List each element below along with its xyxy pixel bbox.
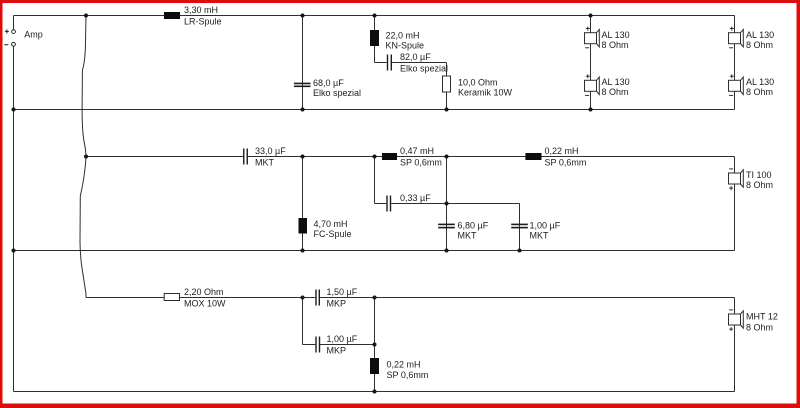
svg-text:22,0 mH: 22,0 mH: [386, 31, 420, 41]
wire 6,8uF column: [446, 157, 448, 251]
terminal - circle: [4, 42, 15, 46]
wire 0,33uF branch: [375, 157, 447, 204]
svg-text:MHT 12: MHT 12: [746, 312, 778, 322]
capacitor C3 33,0 uF MKT: [243, 146, 286, 168]
svg-text:8 Ohm: 8 Ohm: [602, 40, 629, 50]
svg-text:3,30 mH: 3,30 mH: [184, 5, 218, 15]
svg-text:0,47 mH: 0,47 mH: [400, 146, 434, 156]
wire R1 to return: [446, 92, 448, 110]
svg-text:33,0 µF: 33,0 µF: [255, 146, 286, 156]
svg-text:Elko spezial: Elko spezial: [400, 64, 448, 74]
node mid return left: [12, 249, 16, 253]
node mid feed FC: [301, 155, 305, 159]
label Amp: [24, 29, 43, 39]
svg-text:8 Ohm: 8 Ohm: [746, 322, 773, 332]
wire left ground rail: [13, 46, 15, 391]
speaker LS5 TI 100 8 Ohm: [729, 169, 774, 190]
node mid feed amp: [84, 155, 88, 159]
svg-text:MKT: MKT: [255, 158, 275, 168]
node mid return 68: [445, 249, 449, 253]
svg-text:1,00 µF: 1,00 µF: [327, 334, 358, 344]
svg-text:6,80 µF: 6,80 µF: [458, 220, 489, 230]
svg-text:SP 0,6mm: SP 0,6mm: [400, 158, 442, 168]
svg-text:MKP: MKP: [327, 346, 347, 356]
svg-text:10,0 Ohm: 10,0 Ohm: [458, 77, 498, 87]
svg-text:4,70 mH: 4,70 mH: [314, 219, 348, 229]
node woofer return left: [12, 108, 16, 112]
speaker LS1 AL 130 8 Ohm: [585, 27, 630, 51]
svg-text:MKT: MKT: [530, 230, 550, 240]
svg-text:8 Ohm: 8 Ohm: [746, 180, 773, 190]
wire TI column: [734, 157, 736, 251]
svg-text:AL 130: AL 130: [746, 30, 774, 40]
resistor R1 10,0 Ohm Keramik 10W: [443, 76, 513, 97]
capacitor C5 6,80 uF MKT: [438, 220, 489, 240]
speaker LS4 AL 130 8 Ohm: [729, 74, 775, 97]
capacitor C4 0,33 uF: [386, 193, 431, 212]
node woofer return R1: [445, 108, 449, 112]
resistor R2 2,20 Ohm MOX 10W: [164, 287, 226, 309]
speaker LS6 MHT 12 8 Ohm: [729, 310, 778, 333]
inductor L5 0,22 mH SP 0,6mm: [525, 146, 586, 168]
wire amp curve upper: [82, 16, 86, 157]
svg-text:0,22 mH: 0,22 mH: [545, 146, 579, 156]
wire mid feed rail: [86, 156, 735, 158]
node top at KN branch: [373, 14, 377, 18]
wire KN to C2: [375, 62, 447, 64]
wire MHT column: [734, 298, 736, 392]
inductor L2 22,0 mH KN-Spule: [370, 30, 424, 51]
svg-text:82,0 µF: 82,0 µF: [400, 52, 431, 62]
wire 1,00uF MKP branch: [303, 298, 375, 345]
node top at 68uF: [301, 14, 305, 18]
inductor L3 4,70 mH FC-Spule: [299, 218, 352, 239]
svg-text:AL 130: AL 130: [602, 30, 630, 40]
wire mid return rail: [14, 250, 735, 252]
capacitor C6 1,00 uF MKT: [511, 220, 561, 240]
svg-text:MKT: MKT: [458, 230, 478, 240]
svg-text:AL 130: AL 130: [602, 77, 630, 87]
node top at left speakers: [589, 14, 593, 18]
wire bottom rail: [14, 391, 735, 393]
node 033 branch: [445, 202, 449, 206]
node tweeter feed left: [301, 296, 305, 300]
wire woofer return rail: [14, 109, 735, 111]
inductor L6 0,22 mH SP 0,6mm: [370, 358, 428, 380]
wire top rail (+): [14, 15, 735, 17]
wire 0,22mH column: [374, 298, 376, 392]
inductor L1 3,30 mH LR-Spule: [164, 5, 222, 27]
node woofer return speakers: [589, 108, 593, 112]
wire amp curve lower: [80, 157, 86, 298]
wire left speaker column: [590, 16, 592, 110]
node woofer return 68uF: [301, 108, 305, 112]
svg-text:KN-Spule: KN-Spule: [386, 41, 425, 51]
node bottom rail: [373, 390, 377, 394]
wire tweeter feed rail: [86, 297, 735, 299]
svg-text:Elko spezial: Elko spezial: [313, 88, 361, 98]
terminal + circle: [5, 29, 16, 33]
wire C2 to R1: [446, 63, 448, 77]
wire 68uF stem: [302, 16, 304, 110]
svg-text:1,50 µF: 1,50 µF: [327, 287, 358, 297]
svg-text:8 Ohm: 8 Ohm: [746, 40, 773, 50]
capacitor C2 82,0 uF Elko spezial: [387, 52, 448, 74]
node mid return 100: [518, 249, 522, 253]
svg-text:Keramik 10W: Keramik 10W: [458, 87, 513, 97]
capacitor C8 1,00 uF MKP: [315, 334, 357, 356]
node mid feed 033: [373, 155, 377, 159]
svg-text:8 Ohm: 8 Ohm: [746, 87, 773, 97]
wire KN branch vertical: [374, 16, 376, 63]
node tweeter feed right: [373, 296, 377, 300]
speaker LS3 AL 130 8 Ohm: [729, 27, 775, 51]
svg-text:FC-Spule: FC-Spule: [314, 229, 352, 239]
svg-text:1,00 µF: 1,00 µF: [530, 220, 561, 230]
wire amp plus stub: [13, 16, 15, 30]
wire FC stem: [302, 157, 304, 251]
svg-text:MKP: MKP: [327, 299, 347, 309]
speaker LS2 AL 130 8 Ohm: [585, 74, 630, 97]
svg-text:AL 130: AL 130: [746, 77, 774, 87]
node mid return FC: [301, 249, 305, 253]
svg-text:LR-Spule: LR-Spule: [184, 17, 222, 27]
wire branch to 1,00uF MKT: [447, 204, 520, 251]
svg-text:SP 0,6mm: SP 0,6mm: [387, 370, 429, 380]
svg-text:68,0 µF: 68,0 µF: [313, 78, 344, 88]
svg-text:SP 0,6mm: SP 0,6mm: [545, 158, 587, 168]
svg-text:0,33 µF: 0,33 µF: [400, 193, 431, 203]
svg-text:Amp: Amp: [24, 29, 43, 39]
svg-text:MOX 10W: MOX 10W: [184, 299, 226, 309]
node top at amp curve: [84, 14, 88, 18]
svg-text:TI 100: TI 100: [746, 170, 772, 180]
capacitor C1 68,0 uF Elko spezial: [294, 78, 361, 98]
svg-text:8 Ohm: 8 Ohm: [602, 87, 629, 97]
capacitor C7 1,50 uF MKP: [315, 287, 357, 309]
inductor L4 0,47 mH SP 0,6mm: [382, 146, 442, 168]
node mid feed 68: [445, 155, 449, 159]
wire right speaker column: [734, 16, 736, 110]
svg-text:2,20 Ohm: 2,20 Ohm: [184, 287, 224, 297]
node mkp branch: [373, 343, 377, 347]
svg-text:0,22 mH: 0,22 mH: [387, 360, 421, 370]
